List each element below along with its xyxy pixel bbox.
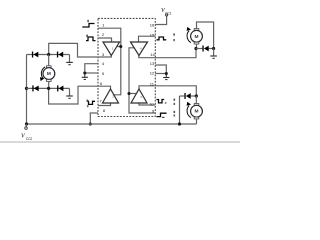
svg-text:12: 12	[150, 70, 155, 75]
diode D2	[57, 52, 63, 58]
ground motor2	[210, 56, 217, 58]
wire pin14 output to motor M2	[139, 49, 196, 58]
wire pin1 EN1	[98, 28, 121, 95]
wire pin5 ground	[85, 72, 98, 74]
wire diode row motor3	[180, 95, 185, 97]
waveform glyph pin2	[86, 37, 96, 41]
svg-text:CC1: CC1	[165, 11, 172, 15]
waveform glyph pin1	[82, 24, 94, 28]
node EN1-drv1	[117, 46, 121, 48]
diode D5	[202, 46, 208, 52]
wire pin10 input	[139, 103, 155, 105]
rotation arrow motor3	[187, 106, 191, 118]
wire motor1 top stub	[48, 55, 50, 66]
ground pins 4-5	[82, 73, 88, 79]
ground bottom row	[66, 96, 73, 98]
svg-text:6: 6	[100, 81, 103, 86]
left supply rail	[26, 55, 28, 125]
diode D4	[57, 85, 63, 91]
node pins4-5	[83, 71, 86, 74]
node pin8 rail	[89, 122, 92, 125]
svg-text:14: 14	[150, 52, 155, 57]
IC U1 dashed outline	[98, 18, 155, 116]
wire diode row motor2	[196, 48, 202, 50]
svg-text:16: 16	[150, 22, 155, 27]
terminal VCC1	[166, 14, 168, 16]
wire to ground motor2	[213, 49, 215, 56]
wire pin15 input	[139, 36, 156, 42]
wire pin11 output to motor M3 top	[139, 86, 196, 96]
wire pin12 ground	[155, 73, 166, 75]
waveform glyph pin10	[157, 100, 165, 103]
node A motor1 top	[47, 53, 50, 56]
node motor2 ground	[212, 47, 215, 50]
svg-text:1: 1	[102, 22, 105, 27]
diode D6	[184, 93, 190, 99]
op-amp driver 3	[131, 89, 147, 103]
svg-text:M: M	[195, 34, 199, 40]
op-amp driver 4	[131, 42, 148, 56]
node B motor1 bottom	[47, 87, 50, 90]
svg-text:13: 13	[150, 61, 155, 66]
VCC2 rail	[27, 123, 197, 125]
rotation arrow motor2	[187, 31, 191, 43]
svg-text:15: 15	[150, 32, 155, 37]
node motor2 bottom	[194, 47, 197, 50]
svg-text:10: 10	[149, 102, 154, 107]
diode D3	[32, 85, 38, 91]
node pins12-13	[165, 72, 168, 75]
svg-text:M: M	[47, 71, 51, 77]
wire pin4 ground	[85, 64, 98, 73]
wire top diode row	[27, 54, 49, 56]
diode D1	[32, 52, 38, 58]
wire pin9 EN2	[129, 48, 155, 113]
ground top row	[66, 62, 73, 64]
ground pins 12-13	[163, 74, 169, 80]
wire pin3 output to node A	[49, 43, 112, 57]
waveform glyph pin9	[157, 113, 167, 116]
node VCC2 terminal	[25, 122, 28, 125]
motor M2 circuit: top route	[197, 22, 214, 49]
svg-text:4: 4	[102, 61, 105, 66]
wire pin13 ground	[155, 65, 166, 74]
wire pin8 VCC2	[90, 113, 98, 124]
svg-text:CC2: CC2	[26, 137, 33, 141]
motor M1	[47, 66, 52, 68]
wire motor3 top stub	[195, 96, 197, 104]
svg-text:2: 2	[102, 32, 105, 37]
op-amp driver 1	[103, 42, 120, 56]
svg-text:M: M	[195, 109, 199, 115]
rotation arrow motor1	[41, 67, 45, 79]
svg-text:3: 3	[102, 52, 105, 57]
svg-text:5: 5	[102, 71, 105, 76]
node Y rail	[178, 122, 181, 125]
svg-text:8: 8	[103, 108, 106, 113]
waveform glyph pin7	[87, 101, 95, 104]
pin number labels	[100, 22, 156, 113]
motor M3	[194, 104, 199, 106]
svg-text:7: 7	[100, 98, 103, 103]
motor M2	[194, 29, 199, 31]
motor M3 circuit: node Y riser	[179, 96, 181, 124]
wire to ground top row	[69, 55, 71, 63]
op-amp driver 2	[103, 89, 119, 103]
bottom page rule	[0, 141, 240, 143]
terminal VCC2	[25, 124, 27, 127]
wire pin16 VCC1	[155, 16, 166, 25]
wire bottom diode row	[27, 87, 49, 89]
wire pin2 input	[98, 38, 112, 42]
waveform glyph pin15	[157, 37, 167, 40]
node EN2-drv3	[129, 93, 136, 95]
wire pin7 input	[98, 103, 111, 106]
node rail row2	[25, 87, 28, 90]
node motor3 top	[195, 94, 198, 97]
wire pin6 output to motor M1 bottom	[49, 86, 111, 104]
